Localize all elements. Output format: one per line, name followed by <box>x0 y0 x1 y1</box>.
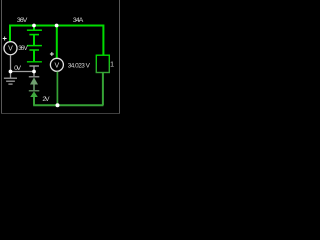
svg-text:2V: 2V <box>42 96 50 103</box>
svg-text:34A: 34A <box>73 17 84 24</box>
svg-text:36 V: 36 V <box>18 45 28 52</box>
svg-text:36V: 36V <box>17 17 28 24</box>
svg-text:0V: 0V <box>14 65 21 72</box>
svg-text:V: V <box>8 46 13 53</box>
svg-text:1: 1 <box>110 61 114 68</box>
svg-text:V: V <box>54 62 59 69</box>
svg-text:34.023 V: 34.023 V <box>68 62 91 69</box>
